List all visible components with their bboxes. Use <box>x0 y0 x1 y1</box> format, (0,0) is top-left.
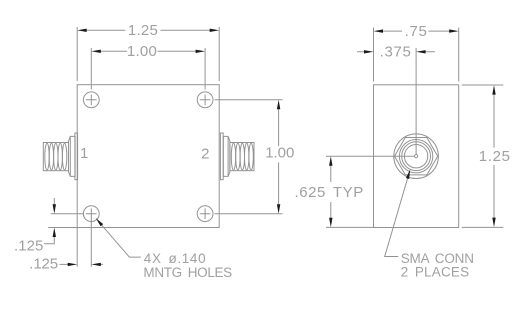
arrow .625 down <box>329 218 332 228</box>
mounting hole top-right <box>197 92 213 108</box>
arrow 1.25 left <box>77 29 87 32</box>
svg-text:2: 2 <box>201 146 210 163</box>
arrow 1.00 right <box>196 50 206 53</box>
connector J2 flange <box>220 133 223 180</box>
svg-text:MNTG HOLES: MNTG HOLES <box>143 265 232 280</box>
mounting hole top-left <box>83 92 99 108</box>
arrow 1.25r up <box>492 85 495 95</box>
connector J2 threaded barrel <box>230 143 254 171</box>
dim .625: dimension line <box>330 165 332 219</box>
arrow .75 right <box>449 29 459 32</box>
leader SMA conn <box>385 178 408 257</box>
svg-text:2 PLACES: 2 PLACES <box>401 265 470 280</box>
dim 1.00 right: extension lines <box>215 100 283 214</box>
dim 1.25 right: extension lines <box>462 85 504 227</box>
arrow leader sma <box>406 169 410 179</box>
arrow leader mntg <box>96 218 104 226</box>
right view body outline <box>374 85 459 228</box>
connector J1 hex nut <box>69 136 76 176</box>
arrow .375 left <box>364 50 374 53</box>
dim .75: dimension line <box>383 30 451 32</box>
svg-text:.125: .125 <box>14 238 44 255</box>
dim 1.00 right: dimension line <box>278 109 280 206</box>
connector J1 threads <box>45 143 67 170</box>
dim .125 vertical: dimension line + elbow <box>44 198 54 244</box>
dim .125 vertical: extension lines <box>48 214 84 228</box>
connector J2 threads <box>231 143 253 170</box>
svg-text:.375: .375 <box>380 43 412 60</box>
SMA front: outer circle <box>394 134 439 179</box>
dim .375: dimension line <box>357 51 435 53</box>
connector J1 flange <box>75 133 78 180</box>
mounting hole bottom-left <box>83 206 99 222</box>
arrow .125h left <box>91 263 101 266</box>
svg-text:4X ø.140: 4X ø.140 <box>144 251 206 266</box>
svg-text:1.00: 1.00 <box>127 43 158 60</box>
SMA front: barrel circle <box>402 142 431 171</box>
arrow .125v down <box>53 204 56 214</box>
connector J2 hex nut <box>223 136 230 176</box>
left view body outline <box>77 85 219 228</box>
dim .75: extension lines <box>374 28 459 82</box>
svg-text:.625 TYP: .625 TYP <box>294 184 364 201</box>
arrow .375 right <box>416 50 426 53</box>
svg-text:1.25: 1.25 <box>128 22 159 39</box>
svg-text:.125: .125 <box>29 256 59 273</box>
dim .625: extension line bottom <box>326 226 377 228</box>
arrow 1.00r down <box>277 204 280 214</box>
dim 1.00 top: extension lines <box>91 48 205 90</box>
SMA front: thread circle <box>399 140 432 173</box>
arrow .125h right <box>68 263 78 266</box>
svg-text:1: 1 <box>80 145 89 162</box>
dim .125 horizontal: dimension line <box>60 263 104 265</box>
svg-text:1.25: 1.25 <box>479 148 511 165</box>
SMA front: center pin <box>415 155 418 158</box>
dim 1.00 top: dimension line <box>100 50 197 52</box>
arrow .625 up <box>329 156 332 166</box>
dim .125 horizontal: extension lines <box>77 219 91 267</box>
arrow 1.00r up <box>277 100 280 110</box>
arrow .125v up <box>53 228 56 238</box>
dim 1.25 top: extension lines <box>77 27 219 81</box>
leader MNTG holes <box>101 224 141 257</box>
arrow .75 left <box>374 29 384 32</box>
svg-text:.75: .75 <box>405 23 428 40</box>
mounting hole bottom-right <box>197 206 213 222</box>
dim 1.25 top: dimension line <box>86 29 213 31</box>
arrow 1.25r down <box>492 218 495 228</box>
arrow 1.00 left <box>91 50 101 53</box>
SMA front: dielectric circle <box>404 145 427 168</box>
centerline vertical <box>415 48 417 155</box>
centerline horizontal <box>326 155 414 157</box>
arrow 1.25 right <box>210 29 220 32</box>
svg-text:1.00: 1.00 <box>265 144 295 161</box>
connector J1 threaded barrel <box>43 143 68 171</box>
SMA front: hex nut <box>395 138 438 175</box>
dim 1.25 right: dimension line <box>493 94 495 219</box>
